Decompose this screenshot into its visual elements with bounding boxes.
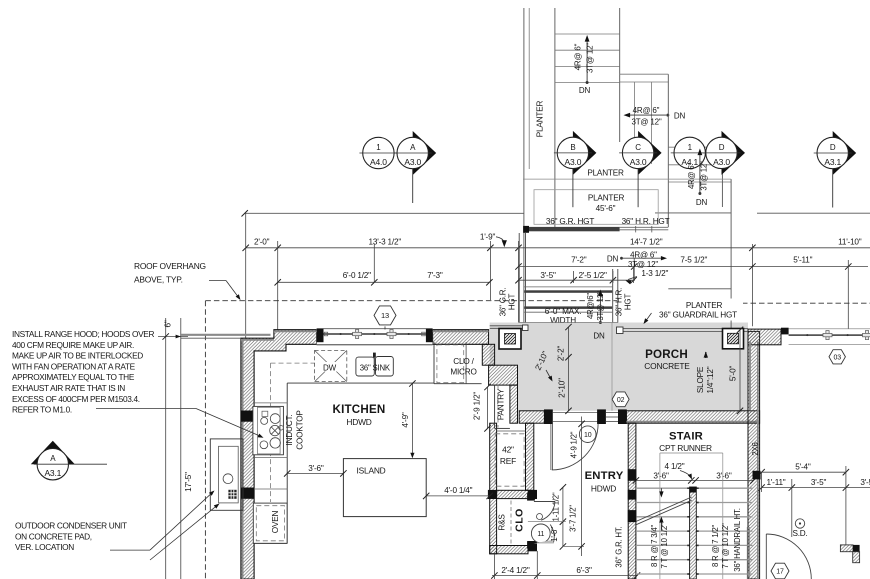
svg-text:PLANTER: PLANTER bbox=[536, 101, 545, 138]
svg-text:DN: DN bbox=[579, 86, 591, 95]
svg-text:CONCRETE: CONCRETE bbox=[644, 361, 690, 371]
svg-text:7'-2": 7'-2" bbox=[571, 256, 587, 265]
smoke detector bbox=[792, 519, 807, 538]
section marker A/A3.0 bbox=[394, 131, 437, 203]
entry door jamb right bbox=[598, 410, 606, 424]
entry sidelight bbox=[606, 413, 619, 422]
wall corner line y=288.8 bbox=[668, 288, 731, 290]
svg-text:D: D bbox=[830, 143, 836, 152]
svg-text:4R@ 6": 4R@ 6" bbox=[633, 106, 660, 115]
hex 13 bbox=[374, 306, 396, 330]
svg-text:PLANTER: PLANTER bbox=[588, 193, 625, 202]
svg-text:36" G.R. HGT: 36" G.R. HGT bbox=[546, 217, 594, 226]
dim row A line bbox=[243, 245, 870, 251]
svg-text:DW: DW bbox=[323, 364, 337, 373]
counter front edge bbox=[287, 383, 434, 543]
pantry shelf dashed bbox=[497, 386, 499, 428]
stair dim 4half bbox=[665, 462, 692, 480]
clo/micro right wall bbox=[482, 344, 494, 365]
svg-text:11'-10": 11'-10" bbox=[838, 238, 862, 247]
36 HR HGT label bbox=[622, 217, 670, 226]
svg-text:1/4":12": 1/4":12" bbox=[706, 366, 715, 393]
PLANTER 45-6 label bbox=[588, 193, 625, 213]
ref room bbox=[495, 431, 525, 486]
svg-text:2'-10": 2'-10" bbox=[558, 378, 567, 398]
stair right wall bbox=[748, 331, 760, 579]
svg-text:PORCH: PORCH bbox=[645, 348, 688, 361]
upper cabinet dashed bbox=[271, 363, 315, 502]
svg-text:36" G.R.: 36" G.R. bbox=[499, 288, 508, 317]
stair run arrows bbox=[659, 488, 663, 530]
SLOPE label bbox=[696, 366, 715, 393]
svg-text:MICRO: MICRO bbox=[450, 367, 476, 376]
runner outline bbox=[660, 453, 723, 579]
svg-text:8 R @ 7 3/4": 8 R @ 7 3/4" bbox=[650, 525, 659, 568]
svg-text:4R@ 6": 4R@ 6" bbox=[687, 163, 696, 189]
dim right verticals bbox=[762, 466, 846, 545]
svg-text:2'-0": 2'-0" bbox=[254, 238, 270, 247]
svg-text:13'-3 1/2": 13'-3 1/2" bbox=[369, 238, 402, 247]
right L wall bbox=[840, 545, 859, 563]
roof overhang dashed vertical bbox=[204, 301, 206, 579]
svg-text:8 R @ 7 1/2": 8 R @ 7 1/2" bbox=[711, 525, 720, 568]
dim row C line right bbox=[515, 277, 637, 283]
svg-text:03: 03 bbox=[834, 354, 842, 361]
wall line x=722.4 bbox=[721, 169, 723, 208]
stair handrail diagonal bbox=[636, 497, 692, 525]
dim 4-9half entry bbox=[569, 417, 584, 557]
section marker D/A3.0 bbox=[703, 131, 746, 175]
counter bottom bbox=[254, 542, 287, 544]
stair labels left bbox=[650, 523, 669, 569]
porch right post bbox=[723, 329, 744, 349]
counter dividers bbox=[254, 403, 287, 489]
svg-text:45'-6": 45'-6" bbox=[596, 204, 616, 213]
corridor width note bbox=[545, 307, 582, 325]
side stair label 4R bbox=[633, 106, 660, 115]
dim 6-0half bbox=[343, 271, 371, 280]
svg-text:7 T @ 10 1/2": 7 T @ 10 1/2" bbox=[721, 523, 730, 569]
svg-text:6": 6" bbox=[164, 320, 173, 327]
KITCHEN HDWD bbox=[346, 417, 371, 427]
svg-text:6'-0" MAX.: 6'-0" MAX. bbox=[545, 307, 582, 316]
corridor right wall bbox=[613, 269, 618, 323]
stairwell wall x=554.9 bbox=[554, 8, 556, 229]
dim row B line bbox=[515, 263, 868, 269]
svg-text:42": 42" bbox=[502, 445, 514, 455]
svg-text:6'-0 1/2": 6'-0 1/2" bbox=[343, 271, 371, 280]
door bottom right bbox=[766, 534, 811, 579]
svg-text:INDUCT.: INDUCT. bbox=[285, 415, 294, 446]
svg-text:11: 11 bbox=[537, 531, 544, 538]
svg-text:2'-2": 2'-2" bbox=[557, 346, 566, 362]
dishwasher bbox=[315, 350, 347, 381]
svg-text:2X6: 2X6 bbox=[751, 442, 760, 455]
svg-text:HGT: HGT bbox=[624, 294, 633, 311]
svg-text:2'-9 1/2": 2'-9 1/2" bbox=[473, 392, 482, 420]
svg-text:A3.0: A3.0 bbox=[713, 157, 730, 167]
clo micro bottom bbox=[434, 342, 482, 384]
porch bottom wall right bbox=[626, 411, 759, 423]
section marker C/A3.0 bbox=[619, 131, 662, 207]
svg-text:WIDTH: WIDTH bbox=[550, 316, 576, 325]
porch dim 2-10 slanted bbox=[533, 350, 552, 382]
corridor guard bar upper bbox=[524, 287, 612, 293]
svg-text:INSTALL RANGE HOOD; HOODS OVER: INSTALL RANGE HOOD; HOODS OVER bbox=[12, 329, 154, 339]
svg-text:OUTDOOR CONDENSER UNIT: OUTDOOR CONDENSER UNIT bbox=[15, 521, 127, 531]
2x6 label bbox=[751, 442, 760, 455]
porch steps DN note bbox=[607, 251, 667, 269]
dim 6-3 bbox=[576, 566, 592, 575]
porch fence wall bbox=[748, 329, 781, 410]
svg-text:EXCESS OF 400CFM PER M1503.4.: EXCESS OF 400CFM PER M1503.4. bbox=[12, 394, 140, 404]
dim 7-3 bbox=[427, 271, 443, 280]
porch concrete slab (gray) bbox=[490, 323, 748, 411]
svg-text:A4.0: A4.0 bbox=[370, 157, 387, 167]
porch west guard bbox=[490, 325, 528, 331]
section marker 1/A4.1 bbox=[671, 137, 709, 168]
svg-text:1-3 1/2": 1-3 1/2" bbox=[641, 269, 668, 278]
condenser unit bbox=[210, 439, 243, 510]
svg-text:SLOPE: SLOPE bbox=[696, 366, 705, 393]
svg-text:7 T @ 10 1/2": 7 T @ 10 1/2" bbox=[660, 523, 669, 569]
svg-text:EXHAUST AIR RATE THAT IS IN: EXHAUST AIR RATE THAT IS IN bbox=[12, 383, 125, 393]
closet rod dashed bbox=[510, 501, 512, 545]
kitchen top wall right of window bbox=[433, 330, 489, 345]
svg-text:STAIR: STAIR bbox=[669, 430, 703, 442]
dim 14-7half bbox=[630, 238, 663, 247]
svg-text:4'-9 1/2": 4'-9 1/2" bbox=[569, 431, 578, 458]
dim 7-5half bbox=[680, 256, 707, 265]
porch left post bbox=[499, 329, 521, 350]
range hood note bbox=[12, 329, 154, 415]
svg-text:5'-11": 5'-11" bbox=[793, 256, 812, 265]
svg-text:36" H.R.: 36" H.R. bbox=[615, 288, 624, 316]
roof overhang dashed horizontal bbox=[205, 300, 617, 302]
svg-text:3T@ 12": 3T@ 12" bbox=[631, 118, 661, 127]
svg-text:ENTRY: ENTRY bbox=[585, 470, 624, 482]
ref right wall bbox=[526, 423, 534, 490]
svg-text:A: A bbox=[50, 454, 56, 463]
third stair DN arrow bbox=[698, 149, 703, 196]
KITCHEN label bbox=[333, 403, 386, 416]
hex 02 bbox=[612, 392, 629, 407]
dim right row2 bbox=[758, 478, 870, 491]
planter box bbox=[534, 190, 658, 225]
36 HR HGT vertical right bbox=[615, 288, 633, 316]
36 GR HGT label bbox=[546, 217, 594, 226]
svg-text:A3.0: A3.0 bbox=[630, 157, 647, 167]
svg-text:1'-8": 1'-8" bbox=[550, 527, 559, 542]
porch bottom wall left bbox=[519, 411, 544, 423]
svg-text:7'-3": 7'-3" bbox=[427, 271, 443, 280]
svg-text:REF: REF bbox=[500, 456, 516, 466]
sink bbox=[356, 353, 393, 376]
corridor 3T label bbox=[596, 291, 605, 321]
INDUCT COOKTOP label bbox=[285, 410, 305, 450]
svg-text:400 CFM REQUIRE MAKE UP AIR.: 400 CFM REQUIRE MAKE UP AIR. bbox=[12, 340, 134, 350]
svg-text:PANTRY: PANTRY bbox=[497, 388, 506, 420]
third stair treads bbox=[668, 147, 731, 182]
side stair treads vertical bbox=[635, 82, 652, 164]
closet top wall bbox=[488, 490, 536, 498]
svg-text:3'-6": 3'-6" bbox=[653, 472, 669, 481]
stair dim line bbox=[633, 477, 757, 483]
closet dim lines bbox=[528, 484, 584, 550]
roof overhang dashed right bbox=[742, 302, 870, 304]
svg-text:02: 02 bbox=[617, 397, 625, 404]
svg-text:CPT RUNNER: CPT RUNNER bbox=[659, 443, 712, 453]
svg-text:CLO /: CLO / bbox=[453, 357, 474, 366]
dim verticals bottom bbox=[494, 551, 537, 579]
CLO label bbox=[514, 508, 526, 532]
roof overhang note bbox=[134, 261, 241, 300]
upper stair label 3T bbox=[586, 43, 595, 73]
cooktop bbox=[253, 406, 284, 454]
dim 1-9 bbox=[480, 232, 507, 247]
corridor left wall bbox=[519, 233, 525, 323]
svg-text:CLO: CLO bbox=[514, 508, 526, 532]
svg-text:36" GUARDRAIL HGT: 36" GUARDRAIL HGT bbox=[659, 311, 737, 320]
svg-text:1: 1 bbox=[376, 143, 381, 152]
PLANTER label upper bbox=[587, 169, 624, 178]
pantry right wall bbox=[510, 385, 518, 423]
wall line x=731.1 bbox=[730, 179, 732, 329]
svg-text:B: B bbox=[570, 143, 575, 152]
corridor guard bar lower bbox=[524, 306, 612, 312]
dim 2-4half bbox=[491, 566, 640, 579]
dim 1-3half bbox=[626, 269, 669, 285]
svg-text:PLANTER: PLANTER bbox=[587, 169, 624, 178]
condenser note bbox=[15, 521, 150, 553]
svg-text:36" H.R. HGT: 36" H.R. HGT bbox=[622, 217, 670, 226]
svg-text:ABOVE, TYP.: ABOVE, TYP. bbox=[134, 275, 183, 285]
fence line right bbox=[781, 328, 870, 345]
closet bottom wall bbox=[490, 541, 537, 553]
stair stringer bbox=[690, 487, 697, 579]
svg-text:A3.0: A3.0 bbox=[404, 157, 421, 167]
svg-text:3'-6": 3'-6" bbox=[716, 472, 732, 481]
svg-text:3'-5": 3'-5" bbox=[540, 271, 556, 280]
svg-text:3'-6": 3'-6" bbox=[308, 464, 324, 473]
kitchen window bbox=[317, 329, 433, 345]
svg-text:13: 13 bbox=[381, 311, 389, 320]
svg-text:3T@ 12": 3T@ 12" bbox=[586, 43, 595, 73]
landing wall lines bbox=[620, 74, 669, 82]
dim 3-5 bbox=[540, 271, 556, 280]
oven bbox=[253, 503, 287, 543]
svg-text:3T@ 12": 3T@ 12" bbox=[628, 260, 658, 269]
dim row C line left bbox=[275, 279, 493, 285]
stair labels right bbox=[711, 523, 730, 569]
svg-text:PLANTER: PLANTER bbox=[686, 301, 723, 310]
dim 2-9half bbox=[473, 384, 491, 432]
svg-text:A3.1: A3.1 bbox=[44, 468, 61, 478]
corridor 4R label bbox=[586, 293, 595, 319]
svg-text:D: D bbox=[719, 143, 725, 152]
svg-text:REFER TO M1.0.: REFER TO M1.0. bbox=[12, 405, 72, 415]
entry door threshold bbox=[552, 413, 597, 422]
wall line x=668.3 bbox=[667, 74, 669, 227]
svg-text:17'-5": 17'-5" bbox=[184, 472, 193, 492]
svg-text:4'-0 1/4": 4'-0 1/4" bbox=[444, 486, 472, 495]
planter wall line x=523.9 bbox=[523, 8, 525, 323]
gr ht label entry bbox=[615, 526, 624, 567]
closet door circle 11 bbox=[531, 524, 550, 543]
svg-text:ON CONCRETE PAD,: ON CONCRETE PAD, bbox=[15, 531, 92, 541]
section marker B/A3.0 bbox=[554, 131, 597, 207]
svg-text:3'-5": 3'-5" bbox=[811, 478, 827, 487]
PANTRY label bbox=[497, 388, 506, 420]
svg-text:OVEN: OVEN bbox=[271, 511, 280, 534]
svg-text:S.D.: S.D. bbox=[792, 529, 807, 538]
svg-text:MAKE UP AIR TO BE INTERLOCKED: MAKE UP AIR TO BE INTERLOCKED bbox=[12, 351, 143, 361]
porch DN bbox=[593, 331, 605, 340]
third stair DN text bbox=[696, 198, 708, 207]
corridor stair arrow bbox=[598, 290, 603, 325]
dim 4-0quarter bbox=[423, 486, 493, 499]
ENTRY label bbox=[585, 470, 624, 482]
handrail ht label bbox=[733, 508, 742, 571]
upper stair DN arrow bbox=[585, 35, 590, 84]
svg-text:5'-0": 5'-0" bbox=[729, 366, 738, 382]
kitchen left+top wall bbox=[241, 330, 317, 579]
svg-text:DN: DN bbox=[607, 254, 619, 263]
dim row B verticals bbox=[634, 258, 848, 329]
CONCRETE label bbox=[644, 361, 690, 371]
svg-text:3T@ 12": 3T@ 12" bbox=[596, 291, 605, 321]
entry sidelight jamb bbox=[618, 410, 626, 424]
section marker D/A3.1 bbox=[814, 131, 857, 208]
svg-text:5'-4": 5'-4" bbox=[795, 463, 811, 472]
stair dim 3-6 left bbox=[653, 472, 669, 481]
dim 2-0 bbox=[254, 238, 270, 247]
svg-text:2'-5 1/2": 2'-5 1/2" bbox=[579, 271, 607, 280]
stair treads bbox=[636, 488, 753, 574]
dim 5-4 bbox=[758, 463, 849, 476]
svg-text:DN: DN bbox=[593, 331, 605, 340]
section marker 1/A4.0 bbox=[359, 137, 397, 168]
clo micro dashed bbox=[437, 345, 464, 383]
dim 13-3half bbox=[369, 238, 402, 247]
svg-text:WITH FAN OPERATION AT A RATE: WITH FAN OPERATION AT A RATE bbox=[12, 361, 136, 371]
porch dim 5-0 bbox=[729, 327, 744, 414]
island bbox=[343, 459, 426, 517]
ENTRY HDWD bbox=[591, 484, 616, 494]
planter top line y=179.1 bbox=[523, 178, 731, 180]
condenser leaders bbox=[150, 491, 220, 561]
pantry top wall bbox=[489, 365, 518, 385]
guard ticks bbox=[636, 226, 652, 232]
side stair label 3T bbox=[631, 118, 661, 127]
svg-text:C: C bbox=[635, 143, 641, 152]
svg-text:2'-4 1/2": 2'-4 1/2" bbox=[501, 566, 529, 575]
svg-text:VER. LOCATION: VER. LOCATION bbox=[15, 542, 74, 552]
svg-text:36" G.R. HT.: 36" G.R. HT. bbox=[615, 526, 624, 567]
CLO MICRO label bbox=[450, 357, 476, 376]
closet door lower leaf bbox=[534, 525, 555, 544]
svg-text:10: 10 bbox=[584, 432, 592, 439]
planter wall line x=529.2 bbox=[528, 8, 530, 169]
hex 17 bbox=[771, 563, 789, 579]
porch interior line bbox=[611, 323, 613, 411]
stairwell wall x=619.7 bbox=[619, 8, 621, 142]
svg-text:4'-9": 4'-9" bbox=[401, 412, 410, 428]
closet dim labels bbox=[550, 492, 578, 542]
dim 3-6 island bbox=[284, 464, 347, 477]
closet door upper leaf bbox=[534, 502, 555, 521]
reference line y=213 bbox=[242, 210, 870, 216]
dim 5-11 bbox=[793, 256, 812, 265]
svg-text:36" HANDRAIL HT.: 36" HANDRAIL HT. bbox=[733, 508, 742, 571]
svg-text:4 1/2": 4 1/2" bbox=[665, 462, 685, 471]
svg-text:3T@ 12": 3T@ 12" bbox=[699, 161, 708, 191]
svg-text:1'-9": 1'-9" bbox=[480, 232, 496, 241]
closet door jambs bbox=[528, 494, 535, 549]
svg-text:1: 1 bbox=[688, 143, 693, 152]
svg-text:6'-3": 6'-3" bbox=[576, 566, 592, 575]
kitchen wall posts bbox=[241, 411, 254, 499]
svg-text:A3.0: A3.0 bbox=[565, 157, 582, 167]
third stair label 3T bbox=[699, 161, 708, 191]
stair left wall bbox=[628, 423, 636, 579]
dim 7-2 bbox=[571, 256, 587, 265]
PLANTER vertical label bbox=[536, 101, 545, 138]
36 GR HGT vertical left bbox=[499, 288, 517, 317]
svg-text:4R@ 6": 4R@ 6" bbox=[586, 293, 595, 319]
svg-text:7-5 1/2": 7-5 1/2" bbox=[680, 256, 707, 265]
svg-text:A: A bbox=[410, 143, 416, 152]
left dim lines bbox=[166, 318, 181, 579]
dim 4-9 island bbox=[401, 380, 416, 458]
17-5 dim bbox=[184, 472, 193, 492]
svg-text:3'-7 1/2": 3'-7 1/2" bbox=[569, 505, 578, 532]
svg-text:4R@ 6": 4R@ 6" bbox=[630, 251, 657, 260]
svg-text:DN: DN bbox=[674, 111, 686, 120]
range hood leader bbox=[96, 409, 264, 438]
side stair DN arrow bbox=[624, 113, 670, 118]
svg-text:1'-11": 1'-11" bbox=[766, 478, 785, 487]
6 inch dim bbox=[158, 320, 188, 340]
ref left wall bbox=[490, 423, 497, 554]
svg-text:14'-7 1/2": 14'-7 1/2" bbox=[630, 238, 663, 247]
planter guardrail note box bbox=[644, 299, 744, 325]
section marker A/A3.1 bbox=[31, 441, 107, 480]
slope arrow bbox=[704, 352, 708, 359]
upper stair treads bbox=[555, 34, 620, 83]
svg-text:17: 17 bbox=[776, 569, 784, 576]
entry door arc bbox=[551, 424, 598, 470]
PORCH label bbox=[645, 348, 688, 361]
entry door jamb left bbox=[544, 410, 552, 424]
upper stair label 4R bbox=[574, 43, 583, 70]
svg-text:HDWD: HDWD bbox=[346, 417, 371, 427]
stair right wall post bbox=[747, 471, 760, 579]
svg-text:1-11 1/2": 1-11 1/2" bbox=[552, 492, 561, 521]
dim 11-10 bbox=[838, 238, 862, 247]
svg-text:36" SINK: 36" SINK bbox=[360, 363, 391, 372]
svg-text:KITCHEN: KITCHEN bbox=[333, 403, 386, 416]
svg-text:A3.1: A3.1 bbox=[824, 157, 841, 167]
stair dim 3-6 right bbox=[716, 472, 732, 481]
svg-text:APPROXIMATELY EQUAL TO THE: APPROXIMATELY EQUAL TO THE bbox=[12, 372, 135, 382]
porch north guard bbox=[519, 323, 748, 334]
dim row C right verticals bbox=[574, 268, 634, 283]
pantry walls bbox=[495, 385, 510, 428]
upper stair DN text bbox=[579, 86, 591, 95]
svg-text:R&S: R&S bbox=[497, 514, 506, 531]
left roof edge line bbox=[181, 335, 271, 338]
